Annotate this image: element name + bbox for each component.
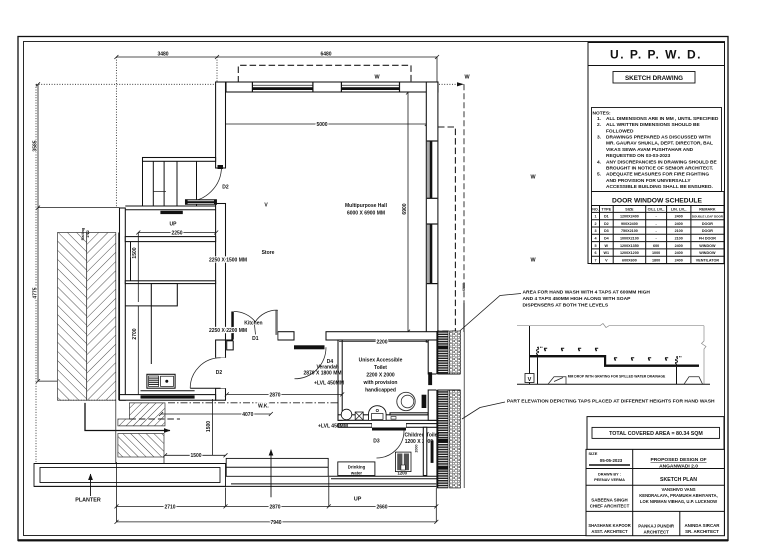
svg-text:REMARK: REMARK — [699, 207, 716, 211]
svg-text:DOOR: DOOR — [702, 222, 713, 226]
dim 1500 vertical store — [137, 233, 139, 303]
lobby window V jamb ticks — [185, 199, 217, 204]
top dim ticks — [114, 55, 439, 59]
apron bottom edge line — [34, 485, 436, 487]
north window 1 glazing — [252, 87, 313, 90]
door D2 stair stop — [218, 165, 224, 169]
door D1 opening white — [233, 331, 277, 341]
svg-text:VENTILATOR: VENTILATOR — [696, 258, 720, 262]
svg-text:1:12: 1:12 — [86, 230, 90, 238]
small drain mark — [391, 417, 396, 420]
door D4 leaf — [294, 345, 325, 349]
svg-text:6: 6 — [594, 251, 596, 255]
svg-text:SR. ARCHITECT: SR. ARCHITECT — [685, 529, 719, 534]
svg-text:Toilet: Toilet — [374, 365, 387, 371]
schedule header box — [592, 192, 725, 206]
svg-text:UP: UP — [170, 221, 178, 227]
svg-text:U. P. P. W. D.: U. P. P. W. D. — [610, 48, 702, 62]
apron top edge line — [34, 463, 226, 465]
svg-text:2250 X 2200 MM: 2250 X 2200 MM — [209, 328, 247, 334]
svg-text:Multipurpose Hall: Multipurpose Hall — [345, 203, 388, 209]
toilet west wall — [338, 340, 342, 420]
svg-text:6900: 6900 — [462, 283, 466, 291]
svg-text:UP: UP — [354, 497, 362, 503]
svg-text:DRAWINGS PREPARED AS DISCUSSED: DRAWINGS PREPARED AS DISCUSSED WITH — [606, 135, 711, 141]
leader text: area for hand wash — [523, 290, 651, 309]
site boundary dotted left — [35, 84, 37, 462]
dim 2870 ticks — [225, 392, 344, 396]
WK dash-dot line — [168, 402, 338, 404]
svg-text:600: 600 — [653, 244, 659, 248]
door D2 stair arc — [187, 167, 222, 202]
svg-text:W.K.: W.K. — [258, 404, 269, 410]
total covered area outer box — [587, 417, 724, 450]
svg-text:+LVL 450MM: +LVL 450MM — [314, 380, 344, 386]
toilet east wall lower — [428, 390, 438, 420]
svg-text:ARCHITECT: ARCHITECT — [644, 529, 670, 534]
svg-text:SKETCH PLAN: SKETCH PLAN — [660, 477, 697, 483]
svg-text:5000: 5000 — [316, 122, 327, 128]
svg-text:ALL WRITTEN DIMENSIONS SHOULD: ALL WRITTEN DIMENSIONS SHOULD BE — [606, 122, 701, 128]
title panel box — [588, 43, 725, 264]
notes box — [592, 108, 722, 192]
site boundary dotted right — [463, 84, 465, 303]
svg-text:Unisex Accessible: Unisex Accessible — [359, 358, 403, 364]
svg-text:Store: Store — [262, 250, 275, 256]
hall south wall west part — [226, 332, 234, 340]
svg-text:2.: 2. — [597, 122, 601, 128]
toilet south wall — [338, 415, 438, 421]
svg-text:05-05-2023: 05-05-2023 — [600, 458, 623, 463]
store north wall — [125, 237, 215, 242]
store west inner face — [130, 242, 132, 281]
door D4 arc — [295, 347, 327, 379]
dim 2250 ticks — [136, 231, 218, 235]
title block grid — [586, 449, 724, 535]
svg-text:DOOR: DOOR — [702, 229, 713, 233]
svg-text:AND 4 TAPS 450MM HIGH ALONG WI: AND 4 TAPS 450MM HIGH ALONG WITH SOAP — [523, 296, 632, 302]
svg-text:PART ELEVATION DEPICTING TAPS: PART ELEVATION DEPICTING TAPS PLACED AT … — [507, 399, 715, 405]
svg-text:ANY DISCREPANCIES IN DRAWING S: ANY DISCREPANCIES IN DRAWING SHOULD BE — [606, 159, 717, 165]
kitchen closet box — [151, 284, 177, 306]
svg-text:750X2100: 750X2100 — [621, 229, 638, 233]
svg-text:PEENAV VERMA: PEENAV VERMA — [594, 477, 625, 482]
bottom dims row2 7940 — [117, 521, 437, 523]
lobby window V glazing — [188, 201, 215, 203]
ramp path arrow — [85, 403, 170, 431]
svg-text:1000: 1000 — [652, 251, 660, 255]
soap dispenser coil right — [675, 357, 677, 365]
svg-text:Kitchen: Kitchen — [244, 321, 262, 327]
svg-text:handicapped: handicapped — [365, 388, 396, 394]
door D3 leaf — [372, 428, 406, 431]
lower hatch block lower — [118, 434, 164, 458]
svg-text:Verandah: Verandah — [316, 365, 339, 371]
planter arrow — [90, 474, 92, 496]
svg-text:2200 X 2000: 2200 X 2000 — [366, 373, 395, 379]
dim 2250 line — [138, 232, 216, 234]
dispenser arm left — [538, 346, 544, 348]
svg-text:V: V — [528, 377, 532, 383]
svg-text:ASST. ARCHITECT: ASST. ARCHITECT — [591, 529, 628, 534]
svg-text:ADEQUATE MEASURES FOR FIRE FIG: ADEQUATE MEASURES FOR FIRE FIGHTING — [606, 172, 709, 178]
door D1 right arc — [255, 310, 277, 322]
svg-text:2400: 2400 — [675, 244, 683, 248]
ramp right edge line — [117, 233, 119, 401]
svg-text:1200X1350: 1200X1350 — [620, 244, 639, 248]
svg-text:TYPE: TYPE — [601, 207, 611, 211]
kitchen threshold bar — [141, 395, 195, 398]
svg-text:ANGANWADI 2.0: ANGANWADI 2.0 — [659, 463, 698, 469]
verandah front steps inner line — [226, 466, 328, 468]
svg-text:3585: 3585 — [33, 140, 39, 151]
toilet east wall upper — [428, 340, 438, 374]
taps lower level — [614, 357, 668, 361]
extension line y381 — [38, 380, 58, 382]
svg-text:VANSHIVO VANS: VANSHIVO VANS — [661, 487, 695, 492]
elevation left wall line — [529, 326, 531, 384]
door D2 kitchen arc — [190, 358, 220, 388]
svg-text:D1: D1 — [604, 215, 609, 219]
svg-text:6000 X 6900 MM: 6000 X 6900 MM — [347, 211, 385, 217]
accessible WC circle outer — [397, 392, 415, 410]
taps upper level — [544, 348, 598, 352]
north window 1 sill line — [252, 84, 313, 86]
planter outer box — [34, 464, 226, 487]
svg-text:1200X2400: 1200X2400 — [620, 215, 639, 219]
children geyser base — [401, 465, 405, 470]
svg-text:D3: D3 — [373, 438, 380, 444]
strip vent block 3 — [437, 346, 448, 349]
D1 jamb stub below opening — [227, 341, 234, 350]
west apron edge — [115, 400, 117, 463]
svg-text:2400: 2400 — [675, 258, 683, 262]
ramp chevron hatch left half — [58, 233, 87, 401]
svg-text:SABEENA SINGH: SABEENA SINGH — [591, 498, 627, 503]
kitchen east wall (below hall south wall) — [216, 340, 226, 358]
east strip door gap — [437, 374, 462, 390]
dim 1500 horizontal line — [165, 454, 226, 456]
svg-text:SHASHANK KAPOOR: SHASHANK KAPOOR — [588, 523, 630, 528]
east window 2 glazing — [430, 224, 433, 284]
east window 1 frame line — [427, 141, 429, 198]
accessible WC circle inner — [401, 395, 414, 408]
children geyser dark left — [397, 454, 402, 471]
svg-text:DOUBLE LEAF DOOR: DOUBLE LEAF DOOR — [692, 215, 724, 219]
west outer wall — [120, 208, 126, 400]
strip vent block 2 — [437, 466, 448, 469]
children block south line — [328, 475, 437, 477]
entrance up arrow — [270, 450, 272, 498]
svg-text:D2: D2 — [604, 222, 609, 226]
east window 2 jambs — [427, 224, 438, 284]
children geyser dark right — [404, 454, 409, 471]
svg-text:TOTAL COVERED AREA = 80.34 SQM: TOTAL COVERED AREA = 80.34 SQM — [609, 431, 703, 437]
extension line x116 — [115, 57, 117, 208]
east strip outer brick band — [450, 331, 461, 488]
dim 2200 toilet line — [339, 341, 428, 343]
drinking water alcove — [338, 462, 375, 476]
sink drainboard stripes — [149, 376, 159, 387]
dashed line y419 — [129, 418, 180, 420]
svg-text:2870: 2870 — [269, 392, 280, 398]
dim 4070 ticks — [159, 412, 273, 416]
door D1 left arc — [234, 311, 256, 321]
dim 2870 verandah line — [227, 393, 342, 395]
svg-text:1200X1200: 1200X1200 — [620, 251, 639, 255]
svg-text:BROUGHT IN NOTICE OF SENIOR AR: BROUGHT IN NOTICE OF SENIOR ARCHITECT. — [606, 166, 713, 172]
hatch block right edge extension — [163, 457, 165, 464]
svg-text:MM DROP WITH GRATING FOR SPILL: MM DROP WITH GRATING FOR SPILLED WATER D… — [568, 374, 666, 378]
lobby window V sill box — [186, 200, 217, 204]
svg-text:FOLLOWED: FOLLOWED — [606, 128, 634, 134]
svg-text:with provision: with provision — [363, 380, 398, 386]
svg-text:2: 2 — [594, 222, 596, 226]
svg-text:D1: D1 — [252, 336, 259, 342]
north window 2 sill line — [341, 84, 399, 86]
top dimension line — [116, 56, 437, 58]
svg-text:SIZE: SIZE — [589, 451, 598, 456]
elevation ground line — [517, 383, 710, 385]
svg-text:SIZE: SIZE — [625, 207, 634, 211]
part elevation leader — [462, 402, 505, 419]
children north wall east part — [406, 424, 438, 428]
planter inner box — [40, 468, 220, 483]
mop square with X — [355, 412, 363, 420]
east window 1 glazing — [430, 141, 433, 198]
svg-text:2660: 2660 — [376, 504, 387, 510]
lower counter slab — [604, 365, 699, 367]
east wall thick line lower — [436, 390, 438, 488]
svg-text:4775: 4775 — [33, 287, 39, 298]
toilet east door bar — [428, 372, 432, 385]
soap dispenser coil left — [536, 347, 538, 355]
svg-text:WINDOW: WINDOW — [699, 251, 716, 255]
store-kitchen divider — [125, 281, 215, 284]
site boundary arrow — [457, 82, 464, 86]
north window 2 glazing — [341, 87, 399, 90]
landing line 1 — [125, 205, 215, 207]
svg-text:FH DOOR: FH DOOR — [699, 237, 716, 241]
svg-text:600X600: 600X600 — [622, 258, 637, 262]
svg-text:W1: W1 — [604, 251, 610, 255]
north window 1 jambs — [252, 83, 313, 92]
stair treads — [143, 161, 197, 206]
sink bowl — [161, 376, 174, 386]
svg-text:D2: D2 — [216, 370, 223, 376]
wall ledge line in toilet — [390, 413, 428, 415]
svg-text:PANKAJ PUNDIR: PANKAJ PUNDIR — [638, 523, 675, 528]
counter step connector — [604, 355, 606, 367]
hall east wall — [426, 82, 438, 342]
svg-text:2100: 2100 — [675, 237, 683, 241]
svg-text:1200 X 2000: 1200 X 2000 — [405, 439, 434, 445]
drainage note leader — [554, 378, 563, 382]
site boundary dotted top — [36, 83, 461, 85]
svg-text:ACCESSIBLE BUILDING SHALL BE E: ACCESSIBLE BUILDING SHALL BE ENSURED. — [606, 184, 713, 190]
svg-text:WINDOW: WINDOW — [699, 244, 716, 248]
kitchen east wall lower — [216, 388, 226, 400]
children toilet east bar — [431, 440, 434, 463]
hall south wall between D1 D4 — [278, 332, 294, 340]
svg-text:2400: 2400 — [675, 215, 683, 219]
svg-text:2100: 2100 — [675, 229, 683, 233]
svg-text:4.: 4. — [597, 159, 601, 165]
extension line x217 — [216, 57, 218, 82]
svg-text:7: 7 — [594, 258, 596, 262]
dim 1500 vertical line — [212, 399, 214, 455]
svg-text:NO.: NO. — [592, 207, 599, 211]
svg-text:MR. GAURAV SHUKLA, DEPT. DIREC: MR. GAURAV SHUKLA, DEPT. DIRECTOR, BAL — [606, 141, 713, 147]
children geyser outer — [395, 452, 411, 472]
svg-text:2200: 2200 — [376, 339, 387, 345]
svg-text:2250 X 1500 MM: 2250 X 1500 MM — [209, 258, 247, 264]
door D1 right leaf — [275, 310, 278, 335]
svg-text:1000X2100: 1000X2100 — [620, 237, 639, 241]
WC inner rect — [372, 414, 384, 420]
kitchen north edge line — [125, 305, 151, 307]
kitchen sink unit — [147, 374, 175, 388]
bottom dim extensions — [117, 462, 437, 522]
apron inner line — [231, 483, 436, 485]
elevation border right (gray) — [702, 326, 707, 384]
dim 2700 vertical kitchen — [137, 306, 139, 395]
svg-text:KENDRALAYA, PRAMUKH ABHIYANTA,: KENDRALAYA, PRAMUKH ABHIYANTA, — [639, 493, 717, 498]
svg-text:3.: 3. — [597, 135, 601, 141]
WC button — [376, 409, 378, 411]
dim 1500 h ticks — [163, 453, 228, 457]
east wall thick line upper — [436, 331, 438, 374]
notes text — [593, 111, 719, 191]
svg-text:2400: 2400 — [675, 222, 683, 226]
landing line 2 — [125, 209, 215, 211]
svg-text:PROPOSED DESIGN OF: PROPOSED DESIGN OF — [651, 457, 707, 463]
sink tap — [165, 380, 168, 383]
hall west wall upper — [216, 82, 226, 168]
5000 dimension line — [219, 123, 427, 125]
6900 dim ticks — [406, 91, 410, 334]
svg-text:1800: 1800 — [652, 258, 660, 262]
svg-text:Drinking: Drinking — [348, 465, 366, 470]
svg-text:3: 3 — [594, 229, 596, 233]
svg-text:LOK NIRMAN VIBHAG, U.P. LUCKNO: LOK NIRMAN VIBHAG, U.P. LUCKNOW — [640, 499, 717, 504]
svg-text:1: 1 — [594, 215, 596, 219]
chajja dashed north — [238, 65, 411, 82]
stair north wall — [143, 158, 216, 162]
WC dome — [369, 406, 387, 420]
svg-text:DISPENSERS AT BOTH THE LEVELS: DISPENSERS AT BOTH THE LEVELS — [523, 303, 609, 309]
svg-text:+LVL 450MM: +LVL 450MM — [318, 424, 348, 430]
svg-text:1500: 1500 — [190, 453, 201, 459]
extension line x437 — [436, 57, 438, 87]
svg-text:2870 X 1800 MM: 2870 X 1800 MM — [303, 371, 341, 377]
schedule table text — [592, 207, 724, 262]
svg-text:Children Toilet: Children Toilet — [404, 433, 439, 439]
svg-text:LIN. LVL.: LIN. LVL. — [671, 207, 687, 211]
ramp bottom dotted edge — [58, 399, 116, 401]
children north wall west part — [338, 424, 372, 428]
strip vent block 1 — [437, 439, 448, 443]
upper counter slab — [530, 355, 606, 357]
svg-text:2710: 2710 — [164, 504, 175, 510]
svg-text:1500: 1500 — [132, 247, 138, 258]
chajja dashed east — [438, 127, 455, 331]
floor drain mound right — [684, 377, 703, 384]
floor drain mound left — [548, 377, 566, 384]
east window 2 frame line — [427, 224, 429, 284]
svg-text:AND PROVISION FOR UNIVERSALLY: AND PROVISION FOR UNIVERSALLY — [606, 178, 691, 184]
door D1 left leaf — [231, 312, 234, 340]
svg-text:W: W — [605, 244, 609, 248]
svg-text:2000: 2000 — [415, 445, 419, 453]
sheet bottom thick edge — [18, 539, 728, 541]
svg-text:REQUESTED ON 03-03-2023: REQUESTED ON 03-03-2023 — [606, 153, 671, 159]
svg-text:4070: 4070 — [242, 412, 253, 418]
east strip inner stripes band — [437, 331, 448, 488]
svg-text:5: 5 — [594, 244, 596, 248]
hall north wall — [226, 82, 438, 92]
svg-text:VIKAS SEWA AVAM PUSHTAHAR AND: VIKAS SEWA AVAM PUSHTAHAR AND — [606, 147, 694, 153]
svg-text:7940: 7940 — [270, 520, 281, 526]
north window 2 jambs — [341, 83, 399, 92]
door window schedule table — [592, 206, 725, 264]
leader line to hand wash area — [458, 294, 521, 333]
svg-text:1.: 1. — [597, 116, 601, 122]
svg-text:D2: D2 — [222, 185, 229, 191]
svg-text:1500: 1500 — [206, 421, 212, 432]
svg-text:PLANTER: PLANTER — [75, 498, 101, 504]
bottom dims row1 — [117, 505, 437, 507]
drain pipe left — [537, 357, 539, 384]
ramp chevron hatch right half — [87, 233, 116, 401]
svg-text:water: water — [350, 471, 363, 476]
total covered area inner box — [592, 427, 720, 438]
wash basin circle — [341, 409, 352, 420]
svg-text:DOOR WINDOW SCHEDULE: DOOR WINDOW SCHEDULE — [612, 197, 702, 204]
grab bar dark — [422, 395, 427, 408]
east window 1 jambs — [427, 141, 438, 198]
svg-text:5.: 5. — [597, 172, 601, 178]
children geyser mid line — [402, 454, 404, 471]
hall west wall mid (below D2) — [216, 204, 226, 333]
svg-text:6900: 6900 — [402, 203, 408, 214]
svg-text:2250: 2250 — [171, 230, 182, 236]
dispenser arm right — [677, 356, 683, 358]
svg-text:ANINDA SIRCAR: ANINDA SIRCAR — [685, 523, 721, 528]
left dim ticks — [36, 82, 40, 383]
left dimension line — [37, 84, 39, 381]
svg-text:2700: 2700 — [132, 328, 138, 339]
hall south wall east of D4 — [326, 332, 438, 340]
svg-text:3480: 3480 — [157, 52, 168, 58]
sketch drawing box — [613, 72, 695, 84]
svg-text:2870: 2870 — [269, 504, 280, 510]
children block south line2 — [331, 478, 438, 480]
svg-text:ALL DIMENSIONS ARE IN MM , UNT: ALL DIMENSIONS ARE IN MM , UNTIL SPECIFI… — [606, 116, 719, 122]
drain pipe right — [676, 367, 678, 384]
elevation border top (gray) — [517, 324, 704, 328]
stair mid rail — [153, 190, 166, 192]
U.P.P.W.D. header box — [588, 43, 725, 66]
kitchen step line — [141, 390, 195, 392]
svg-text:SKETCH DRAWING: SKETCH DRAWING — [625, 75, 683, 82]
dim 4070 line — [161, 413, 271, 415]
entry threshold bar — [160, 211, 182, 214]
svg-text:2400: 2400 — [675, 251, 683, 255]
kitchen south wall — [120, 395, 216, 401]
V level marker box — [525, 374, 534, 383]
verandah front steps outer — [226, 458, 328, 476]
